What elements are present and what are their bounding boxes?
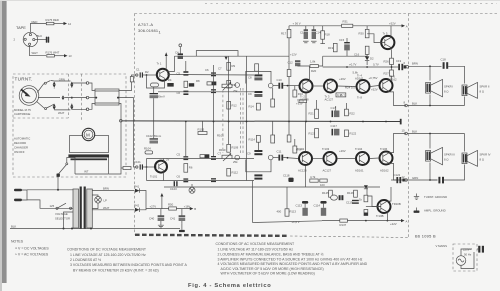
capacitor C106 [183, 178, 188, 182]
resistor R10 [227, 80, 231, 88]
wire RED top [30, 24, 46, 33]
svg-text:R21: R21 [309, 112, 315, 116]
svg-text:2 LOUDNESS AT ½: 2 LOUDNESS AT ½ [70, 258, 101, 262]
svg-text:+22V: +22V [390, 222, 397, 226]
tone loop wire ch1 [246, 71, 271, 83]
transistor Tr103 [324, 152, 337, 165]
pot gang link dashed 2 [240, 88, 242, 155]
svg-text:R19: R19 [328, 46, 334, 50]
svg-text:Tr104: Tr104 [355, 147, 363, 151]
resistor R32 [365, 46, 369, 54]
wire C10 to Tr2 [283, 85, 299, 87]
top scan edge [0, 0, 500, 1]
svg-text:C10: C10 [277, 78, 283, 82]
transformer core bars [80, 187, 86, 230]
wire to C111 [273, 157, 278, 159]
svg-text:R18: R18 [325, 33, 331, 37]
wire Tr5 base [367, 34, 385, 43]
svg-text:R42: R42 [134, 203, 140, 207]
mid bus terminal [400, 119, 402, 125]
svg-text:CONDITIONS OF DC VOLTAGE MEASU: CONDITIONS OF DC VOLTAGE MEASUREMENT [67, 248, 147, 252]
wire row ch2 low [147, 180, 255, 182]
wire Tr104-Tr106 [370, 157, 380, 160]
capacitor C105 [183, 156, 188, 160]
resistor R112 [227, 168, 231, 176]
cable screen dashed [81, 74, 83, 122]
wire BRN out [409, 65, 442, 67]
capacitor C17 electrolytic [332, 111, 340, 118]
svg-text:12: 12 [68, 22, 72, 26]
speaker SPKR I [426, 79, 443, 96]
svg-text:12: 12 [402, 175, 406, 179]
wire emitter chain [391, 65, 393, 71]
terminal BLK ch2 [405, 132, 408, 135]
resistor R116c [287, 135, 291, 142]
pot terminal circle c [235, 155, 240, 160]
capacitor C101 [140, 164, 143, 169]
svg-text:Tr 7: Tr 7 [340, 94, 345, 98]
svg-text:R113: R113 [290, 210, 297, 214]
transistor Tr102 [299, 152, 312, 165]
svg-text:INT: INT [84, 170, 89, 174]
terminal BLK ch1 [405, 104, 408, 107]
wire Tr2-Tr3 [313, 85, 324, 87]
terminal GRN [405, 179, 408, 182]
wire caps col ch2 [257, 142, 259, 150]
resistor R122 [345, 130, 349, 137]
svg-text:B6 1095 B: B6 1095 B [415, 234, 436, 239]
diode R41 [135, 188, 139, 192]
resistor R6 [184, 81, 188, 87]
wire Tr4-Tr6 [370, 86, 379, 87]
diode R42 [135, 208, 139, 212]
svg-text:RED: RED [32, 20, 38, 24]
svg-text:≈ V = AC VOLTAGES: ≈ V = AC VOLTAGES [15, 253, 49, 257]
wire row ch1 low [158, 91, 254, 93]
wire Tr102-Tr103 [313, 158, 324, 160]
resistor R15 [255, 64, 259, 71]
terminal blob ch2 [402, 179, 404, 182]
wire source top [461, 249, 472, 256]
on/off switch S1 [57, 163, 68, 177]
mains plug [14, 189, 27, 202]
wire cartridge top [37, 83, 45, 92]
svg-text:0,7V: 0,7V [373, 62, 379, 66]
svg-text:TURNT. GROUND: TURNT. GROUND [424, 195, 447, 199]
wire cartridge mid [38, 97, 60, 99]
svg-text:SPKR I: SPKR I [444, 85, 453, 89]
svg-text:8 Ω: 8 Ω [480, 158, 484, 162]
svg-text:R137: R137 [340, 223, 347, 227]
wire x289 vertical [288, 26, 290, 122]
connector pin pair 4 [70, 104, 73, 110]
svg-text:BY MEANS OF VOLTMETER 20 kΩ/V: BY MEANS OF VOLTMETER 20 kΩ/V (R.INT. = … [73, 268, 159, 272]
terminal D [179, 44, 182, 47]
resistor R133 [364, 210, 368, 216]
svg-text:R41: R41 [134, 184, 140, 188]
wire cable down [109, 104, 121, 175]
capacitor C118 dark [288, 178, 293, 182]
svg-text:SPKR IV: SPKR IV [480, 153, 491, 157]
pot gang link dashed 1 [222, 90, 224, 153]
pot terminal circle a [235, 83, 240, 88]
mid bus wire [122, 120, 401, 123]
capacitor C21 [438, 177, 444, 184]
voltage selector contacts [56, 203, 72, 209]
svg-text:A757-A: A757-A [138, 22, 153, 27]
wire to terminal 12 [54, 23, 64, 25]
wire Tr1 emitter [147, 75, 165, 88]
svg-text:13: 13 [69, 54, 73, 58]
wire R15b [272, 88, 274, 99]
svg-text:25k: 25k [233, 160, 238, 164]
resistor R132 [364, 195, 368, 202]
capacitor C14 electrolytic [311, 26, 317, 43]
resistor R108 dark [205, 155, 210, 158]
capacitor C107 [211, 156, 216, 160]
resistor R107 [200, 155, 209, 158]
trimmer oval R131 [331, 195, 338, 200]
svg-text:C103: C103 [170, 187, 177, 191]
wire BLK [35, 39, 46, 41]
svg-text:4 VOLTAGES MEASURED BETWEEN IN: 4 VOLTAGES MEASURED BETWEEN INDICATED PO… [218, 262, 368, 266]
svg-text:BRN: BRN [412, 61, 418, 65]
wire cap out [396, 66, 398, 68]
wire rectifier join [139, 191, 146, 210]
svg-text:C113: C113 [296, 204, 303, 208]
capacitor C122 out [396, 177, 401, 183]
resistor R26 [390, 58, 394, 64]
wire Tr5 col down [316, 100, 318, 109]
svg-text:CARTRIDGE: CARTRIDGE [14, 112, 31, 116]
mains dashed box [453, 244, 477, 271]
svg-text:R12: R12 [232, 104, 238, 108]
wire C18 to spkr2 [448, 66, 464, 83]
svg-text:1,8k: 1,8k [310, 60, 316, 64]
svg-text:8 Ω: 8 Ω [444, 90, 448, 94]
svg-text:Fig. 4 - Schema elettrico: Fig. 4 - Schema elettrico [188, 283, 271, 289]
wires into cable box [89, 83, 95, 91]
svg-text:LP: LP [104, 198, 108, 202]
wire verticals power ch1 [305, 93, 307, 122]
node [366, 66, 368, 68]
resistor R18 [320, 26, 325, 44]
svg-text:C13: C13 [300, 31, 306, 35]
board outline top [135, 13, 498, 15]
svg-text:R30: R30 [359, 32, 365, 36]
capacitor C7 [211, 89, 216, 93]
svg-text:C16: C16 [354, 52, 360, 56]
resistor input protect [130, 77, 133, 82]
svg-text:+27V: +27V [150, 204, 157, 208]
transistor Tr5 [381, 36, 394, 49]
wire x246 vertical [246, 57, 248, 181]
arrow exit A [401, 219, 405, 222]
svg-text:SELECTOR: SELECTOR [55, 217, 70, 221]
motor winding bar 2 [71, 158, 108, 160]
wire Tr2 collector up [298, 66, 310, 81]
svg-text:R8: R8 [196, 79, 200, 83]
loop arrow [225, 57, 228, 60]
svg-text:+12V: +12V [290, 52, 297, 56]
wire [51, 80, 54, 83]
svg-text:R20: R20 [311, 69, 317, 73]
wire WHT bottom [30, 45, 46, 55]
secondary wire WHT [92, 209, 134, 211]
wire C21 to spkr4 [444, 165, 465, 181]
svg-text:50 Hz: 50 Hz [464, 253, 472, 257]
node cable left [95, 97, 97, 99]
wire Tr106 collector [389, 134, 406, 153]
terminal A arrow [402, 24, 406, 27]
capacitor C117 electrolytic [332, 129, 340, 136]
resistor R109 [227, 144, 231, 152]
svg-text:Tr 1: Tr 1 [157, 62, 162, 66]
svg-text:V MAINS: V MAINS [436, 244, 448, 248]
svg-text:WHT: WHT [58, 111, 65, 115]
node [63, 228, 65, 230]
wire R115b [272, 122, 274, 136]
tone loop wire ch2 [246, 160, 271, 172]
resistor R105h [198, 132, 207, 135]
node [287, 157, 289, 159]
wire lamp LS2 [191, 184, 193, 187]
board outline left [134, 14, 136, 235]
resistor R137 [340, 219, 348, 222]
wire to terminal [72, 104, 87, 110]
capacitor C6a [183, 91, 188, 95]
board outline bottom dashed [290, 236, 409, 238]
transistor Tr6 [380, 79, 393, 92]
svg-text:3 AMPLIFIER INPUTS CONNECTED T: 3 AMPLIFIER INPUTS CONNECTED TO A SOURCE… [218, 257, 363, 261]
input terminal ch2 [136, 166, 138, 168]
svg-text:R112: R112 [232, 171, 239, 175]
wire D to C4 [179, 47, 181, 55]
svg-text:+16V: +16V [184, 204, 191, 208]
svg-text:R104: R104 [144, 147, 151, 151]
wire cable to amp rail [119, 75, 137, 91]
svg-text:80mV: 80mV [158, 95, 165, 99]
wire R3 to C2 [153, 87, 155, 93]
svg-text:Tr 8: Tr 8 [357, 96, 362, 100]
wire R116c [288, 122, 290, 136]
svg-text:R22: R22 [350, 112, 356, 116]
value box 0.15 [336, 93, 346, 97]
svg-text:RECORD: RECORD [14, 141, 26, 145]
speaker SPKR IV [462, 150, 478, 166]
cartridge compartment dashed [68, 74, 70, 118]
node [287, 85, 289, 87]
svg-text:R125: R125 [322, 191, 329, 195]
wire to spkr3 [429, 134, 431, 149]
motor M1 frame [70, 136, 109, 153]
svg-text:R122: R122 [350, 132, 357, 136]
speaker SPKR II [462, 82, 478, 98]
connector pin pair 3 [53, 104, 56, 110]
wire lamp [92, 195, 98, 197]
svg-text:R176 WHT: R176 WHT [46, 50, 60, 54]
svg-text:+1,6 V: +1,6 V [292, 220, 300, 224]
svg-text:AMPL. GROUND: AMPL. GROUND [424, 209, 446, 213]
pot terminal circle d [268, 155, 273, 160]
wire to terminal [72, 83, 87, 88]
capacitor C1 [140, 72, 143, 77]
svg-text:WHT: WHT [32, 51, 39, 55]
wire to C10 [273, 85, 278, 87]
wire col 228.6 [228, 57, 230, 122]
bus terminal circle left [120, 120, 123, 123]
wire row 224 [253, 221, 323, 223]
wire Tr6 collector [389, 76, 391, 80]
svg-text:C119: C119 [346, 201, 353, 205]
terminal circles [86, 82, 89, 85]
capacitor C102 electrolytic [150, 138, 159, 143]
cartridge [19, 86, 39, 106]
svg-text:R105: R105 [198, 127, 205, 131]
wire input ch1 [143, 74, 157, 76]
svg-text:TURNT.: TURNT. [15, 77, 33, 82]
svg-text:R114: R114 [249, 138, 256, 142]
svg-text:C19: C19 [396, 59, 402, 63]
winding taps [64, 212, 74, 229]
svg-text:Tr106: Tr106 [380, 147, 388, 151]
transistor Tr106 [380, 152, 393, 165]
resistor R16c [287, 70, 291, 77]
wire +27V rail [146, 208, 191, 210]
svg-text:WITH VOLTMETER OF 5 kΩ/V OR MO: WITH VOLTMETER OF 5 kΩ/V OR MORE (LOW RE… [221, 272, 315, 276]
winding lower wires [74, 158, 76, 175]
svg-text:Tr101: Tr101 [150, 175, 158, 179]
lamp LS2 [189, 187, 195, 193]
capacitor C110 [254, 174, 262, 179]
feedback loop wire [196, 51, 238, 57]
capacitor C41 [179, 209, 186, 224]
capacitor C111 [278, 155, 283, 161]
board outline right [408, 14, 410, 238]
svg-text:R6: R6 [189, 166, 193, 170]
wire row ch2 top [147, 158, 255, 160]
bottom wire BLK [10, 228, 180, 230]
svg-text:A: A [406, 219, 408, 223]
pot R11 volume [222, 82, 232, 90]
wire col 213.5 [213, 65, 215, 122]
svg-text:C8: C8 [248, 76, 252, 80]
svg-text:BLK: BLK [412, 101, 417, 105]
svg-text:AC128: AC128 [298, 169, 307, 173]
svg-text:AD161: AD161 [355, 77, 364, 81]
wire cartridge bottom [37, 102, 45, 109]
svg-text:C1: C1 [136, 68, 140, 72]
wire GRN [405, 179, 438, 181]
capacitor C15 electrolytic [344, 38, 350, 56]
capacitor C9 electrolytic [254, 91, 262, 97]
wire Tr106 emitter [389, 163, 406, 180]
rail +56V [289, 25, 342, 27]
node [71, 97, 73, 99]
svg-text:R26: R26 [384, 60, 390, 64]
svg-text:TR10B: TR10B [392, 202, 401, 206]
wire row 67 [323, 66, 396, 68]
resistor R19 [333, 43, 337, 51]
switch contact top [44, 82, 46, 84]
capacitor C10 [278, 83, 283, 89]
wire mid [64, 97, 87, 99]
svg-text:+26V: +26V [339, 77, 346, 81]
connector pin pair 2 [70, 82, 73, 88]
svg-text:R109: R109 [232, 146, 239, 150]
resistor R123 [310, 179, 318, 182]
resistor R3 [151, 83, 159, 87]
resistor R176 [47, 55, 55, 58]
wire Tr103-Tr104 [337, 158, 356, 160]
wire col 185.8 ch2 [185, 122, 187, 157]
wire cable to ch2 [119, 98, 137, 167]
resistor R8 dark [212, 82, 217, 85]
svg-text:R9: R9 [232, 64, 236, 68]
svg-text:CHANGER: CHANGER [14, 146, 28, 150]
svg-text:AUTOMATIC: AUTOMATIC [14, 137, 30, 141]
resistor R7a dark [189, 83, 194, 86]
left scan shadow band [0, 0, 2, 291]
wire to terminal 13 [54, 55, 64, 57]
capacitor C19 [398, 64, 403, 70]
node [146, 74, 148, 76]
node marks on bus [185, 121, 387, 123]
svg-text:CONDITIONS OF AC VOLTAGE MEASU: CONDITIONS OF AC VOLTAGE MEASUREMENT [216, 242, 295, 246]
svg-text:AD162: AD162 [380, 169, 389, 173]
svg-text:AC/DC VOLTMETER OF 5 kΩ/V OR M: AC/DC VOLTMETER OF 5 kΩ/V OR MORE (HIGH … [221, 267, 324, 271]
wire source bottom [461, 252, 474, 269]
transformer T1 primary winding [73, 189, 79, 228]
svg-text:125: 125 [50, 204, 55, 208]
resistor R22 [345, 109, 349, 116]
wire BLK ch2 [407, 133, 464, 135]
svg-text:0,6V: 0,6V [296, 148, 302, 152]
svg-text:25k: 25k [233, 89, 238, 93]
switch contact bottom [45, 108, 47, 110]
svg-text:SPKR II: SPKR II [480, 85, 490, 89]
wire R116 [294, 139, 296, 146]
motor M1 [82, 128, 94, 140]
svg-text:C118: C118 [283, 174, 290, 178]
svg-text:8 Ω: 8 Ω [444, 158, 448, 162]
svg-text:C12: C12 [288, 61, 294, 65]
connector pin pair 1 [53, 82, 56, 88]
svg-text:C9: C9 [247, 152, 251, 156]
svg-text:NOTES: NOTES [11, 240, 24, 244]
resistor R31 series [342, 24, 353, 27]
wire Tr5 emitter [390, 47, 393, 58]
wire C102 col [153, 122, 155, 139]
resistor R114 [256, 135, 260, 142]
transistor Tr104 [356, 152, 369, 165]
lamp LP1 [95, 197, 102, 204]
svg-text:R175 RED: R175 RED [46, 18, 59, 22]
wire Tr101 collector [163, 159, 165, 163]
svg-text:1 LINE VOLTAGE AT 117-180-220: 1 LINE VOLTAGE AT 117-180-220 VOLTS/50 H… [218, 247, 294, 251]
svg-text:≡ V = DC VOLTAGES: ≡ V = DC VOLTAGES [15, 247, 49, 251]
svg-text:BLK: BLK [37, 34, 42, 38]
pot gang link dashed 3 [242, 88, 244, 155]
wire BLK ch1 [407, 105, 464, 107]
svg-text:+0,7V: +0,7V [349, 62, 357, 66]
wire mains bottom [27, 200, 73, 208]
svg-text:2 LOUDNESS AT MAXIMUM, BALANCE: 2 LOUDNESS AT MAXIMUM, BALANCE, BASS AND… [218, 252, 324, 256]
svg-text:1 LINE VOLTAGE AT 125-160-220: 1 LINE VOLTAGE AT 125-160-220 VOLTS/50 H… [70, 253, 146, 257]
resistor R12 [227, 101, 231, 109]
board outline bottom heavy dashes [135, 234, 287, 237]
wire row 58 [174, 55, 289, 57]
